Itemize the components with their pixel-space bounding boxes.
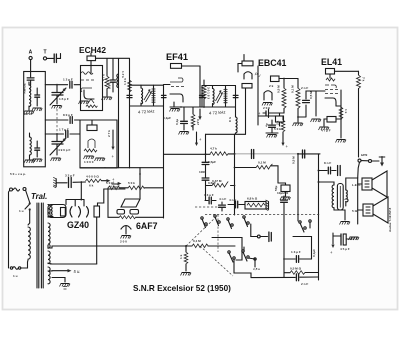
variable capacitor CV2 — [56, 134, 58, 141]
dashed diagonal 1 — [186, 215, 218, 246]
ground 47k — [102, 97, 113, 100]
svg-text:RM-BE: RM-BE — [23, 83, 27, 93]
0.5M resistor line y272.7 — [284, 272, 319, 274]
EL41 cathode — [325, 98, 336, 106]
6.8k boxed resistor — [245, 202, 266, 210]
capacitor in antenna lead — [27, 78, 34, 80]
svg-text:0,5 M: 0,5 M — [309, 91, 313, 99]
svg-text:4 n F: 4 n F — [229, 198, 236, 202]
svg-text:1 3 µ F: 1 3 µ F — [204, 193, 214, 197]
svg-text:6,8 k Ω: 6,8 k Ω — [247, 197, 258, 201]
x320 long vertical — [318, 154, 320, 280]
svg-text:EBC41: EBC41 — [258, 58, 286, 68]
HPS terminal 1 — [358, 159, 361, 162]
mains terminal 2 — [23, 188, 26, 191]
svg-text:3 2 µ F: 3 2 µ F — [65, 174, 75, 178]
wire from anode box right — [182, 65, 201, 67]
variable capacitor CV1 — [56, 85, 58, 92]
ground osc 2 — [95, 158, 106, 161]
ground padding cap — [32, 108, 43, 111]
arrow + — [118, 182, 122, 185]
svg-text:1000: 1000 — [199, 170, 206, 174]
stub cap at 303 — [303, 150, 305, 158]
wire to primary bottom — [21, 262, 28, 268]
IFT2 secondary lower vertical — [235, 86, 237, 118]
wire A down to coil box — [30, 60, 32, 77]
svg-text:1 u: 1 u — [13, 274, 18, 278]
ground osc coil — [24, 160, 35, 163]
HT vertical x129 — [129, 59, 131, 169]
svg-text:5 0 + c a p.: 5 0 + c a p. — [10, 172, 26, 176]
svg-text:2 7 k: 2 7 k — [107, 130, 111, 137]
resistor 0.1M in bus — [192, 244, 208, 248]
stack top wire — [243, 55, 245, 62]
filter choke resistor — [86, 179, 102, 182]
ground 6AF7 — [121, 236, 132, 239]
aerial coil box — [24, 72, 46, 167]
terminal wire to cap stub — [260, 236, 267, 238]
GZ40 top cap wire — [66, 200, 84, 207]
svg-text:T: T — [44, 50, 47, 56]
ground inside tube — [79, 101, 90, 104]
13uF cap wire y259 — [284, 258, 312, 260]
cathode bottom wire — [270, 112, 284, 114]
svg-text:1 7 p F: 1 7 p F — [59, 128, 69, 132]
cathode bypass boxed cap 47u — [327, 117, 336, 123]
svg-text:EF41: EF41 — [166, 52, 188, 62]
secondary winding top — [48, 205, 50, 218]
node x234.5 AVC tap — [234, 185, 236, 187]
output transformer primary coil — [332, 185, 334, 208]
GZ40 filament bumps — [51, 207, 53, 217]
ECH42 envelope — [81, 66, 103, 111]
switch cluster 2 — [228, 247, 256, 267]
grid dashes — [81, 79, 94, 81]
transformer ground — [340, 222, 351, 225]
switch output vertical — [250, 224, 252, 237]
left HT jog — [105, 167, 164, 169]
ground EL41 cathode — [336, 140, 347, 143]
svg-text:4 0 0 0 Ω: 4 0 0 0 Ω — [86, 175, 99, 179]
svg-text:6 k: 6 k — [89, 184, 94, 188]
grid wire to ECH42 — [45, 84, 80, 86]
ground EBC41 anode circuit — [297, 117, 299, 122]
svg-text:A: A — [29, 50, 33, 56]
svg-text:L.E.A.: L.E.A. — [352, 183, 361, 187]
capacitor 80pF — [70, 117, 72, 124]
IFT2 right tuning cap — [233, 95, 238, 97]
coupling cap 2nF — [298, 105, 306, 117]
pickup bottom box — [242, 84, 252, 89]
dashed gang segment upper — [195, 206, 225, 208]
svg-text:0,1 M: 0,1 M — [258, 161, 266, 165]
AVC choke coil — [235, 117, 237, 133]
svg-text:4M 10: 4M 10 — [24, 112, 33, 116]
x234.5 vertical — [234, 134, 236, 215]
decoupling cap under EF41 — [183, 107, 185, 130]
EF41 grid cap top — [170, 78, 183, 82]
1k resistor to ground — [184, 252, 188, 264]
svg-text:GZ40: GZ40 — [67, 220, 89, 230]
primary return + ground — [334, 208, 345, 220]
left mains vertical — [9, 191, 10, 269]
svg-text:0,5µF: 0,5µF — [208, 160, 216, 164]
IFT2 primary coil — [213, 89, 215, 105]
10u cap on feed — [281, 200, 288, 202]
6AF7 anode boxes — [117, 210, 125, 215]
node rail x205.5 — [205, 153, 207, 155]
pickup horseshoe — [244, 72, 252, 79]
HPS wires — [361, 160, 379, 162]
ground osc 1 — [84, 156, 95, 159]
svg-text:1 k: 1 k — [344, 109, 348, 114]
ground aerial coil — [24, 111, 35, 114]
rectifier output line y189 — [104, 188, 125, 190]
heater wire arrow — [48, 270, 68, 272]
speaker 2 cone — [373, 197, 388, 223]
svg-text:0,5 M Ω: 0,5 M Ω — [290, 267, 302, 271]
cap stub — [269, 232, 271, 242]
resistor 12k on HT vertical — [128, 80, 132, 92]
IFT1 can box — [130, 85, 164, 106]
svg-text:1 k: 1 k — [179, 254, 183, 259]
HPS link — [358, 162, 360, 178]
speaker 2 box — [363, 204, 373, 216]
lower AVC resistor — [206, 185, 213, 187]
svg-text:10µ/200: 10µ/200 — [277, 191, 289, 195]
pot resistor 50k left — [108, 186, 120, 190]
switch cluster right — [299, 220, 311, 232]
fuse terminal right — [18, 267, 20, 269]
cathode cap polarized — [265, 111, 267, 116]
HPS terminal 2 — [369, 160, 372, 163]
svg-text:C h: C h — [228, 117, 232, 122]
bypass cap 6800 — [111, 80, 116, 82]
HT vertical from rectifier — [96, 217, 98, 264]
speaker 2 stub — [358, 209, 363, 211]
ground 4u — [266, 132, 278, 134]
secondary winding low — [48, 251, 50, 264]
svg-text:1 u: 1 u — [19, 209, 24, 213]
EF41 anode resistor box — [171, 64, 182, 69]
mains squiggle — [14, 188, 20, 191]
50u decoupling boxed cap — [281, 185, 290, 192]
x298 drop to switch — [297, 154, 299, 221]
pickup top box — [242, 61, 253, 66]
anode load resistor box — [87, 56, 96, 61]
svg-text:4 n F: 4 n F — [219, 197, 226, 201]
heater ground — [52, 278, 65, 283]
feed vertical — [139, 168, 141, 198]
svg-text:2 k: 2 k — [276, 120, 280, 125]
svg-text:4 7 k: 4 7 k — [102, 74, 106, 81]
IFT1 vertical down — [163, 85, 165, 218]
osc resistor zigzag — [84, 149, 97, 152]
svg-text:0,5 M: 0,5 M — [277, 85, 281, 93]
output transformer core — [337, 184, 343, 211]
x284 feed vertical — [283, 196, 285, 278]
ground EBC41 diode — [262, 103, 273, 106]
svg-text:2 0 0: 2 0 0 — [263, 106, 270, 110]
GZ40 anode arcs — [70, 207, 81, 218]
IFT2 left tuning cap — [200, 95, 205, 97]
bus riser — [51, 246, 53, 248]
osc coil horseshoe — [88, 139, 95, 148]
EF41 screen vertical — [199, 66, 201, 107]
svg-text:8 n F: 8 n F — [324, 161, 331, 165]
svg-text:0,1µ: 0,1µ — [175, 119, 179, 125]
grid 2 curve — [81, 88, 92, 92]
EBC41 diode horseshoe — [264, 91, 272, 100]
IFT2 tuning arrows — [216, 91, 223, 103]
ground left (vertical hatch) — [53, 177, 56, 188]
svg-text:4 5 µ F: 4 5 µ F — [340, 247, 350, 251]
2k resistor vertical — [281, 120, 285, 132]
padding capacitor C2 — [35, 95, 40, 97]
svg-text:0,5 M: 0,5 M — [292, 156, 296, 164]
svg-text:2 n F: 2 n F — [301, 282, 308, 286]
EL41 grid 1 — [325, 85, 336, 88]
svg-text:Tral.: Tral. — [31, 192, 47, 201]
ground 6.8k — [266, 200, 269, 211]
svg-text:5 Ω: 5 Ω — [352, 209, 358, 213]
bottom switch wires — [234, 259, 251, 278]
heater inside — [88, 99, 94, 103]
svg-text:S.N.R Excelsior 52 (1950): S.N.R Excelsior 52 (1950) — [133, 284, 231, 293]
fuse squiggle — [13, 267, 19, 270]
fuse terminal left — [10, 267, 12, 269]
grid resistor 47k — [105, 76, 109, 89]
EF41 bottom bus — [170, 106, 212, 108]
svg-text:0,47: 0,47 — [196, 119, 200, 125]
oscillator cap — [35, 148, 40, 150]
svg-text:1 0 0 0: 1 0 0 0 — [84, 160, 94, 164]
output terminal — [257, 235, 260, 238]
right vertical from EL41 anode — [358, 71, 360, 157]
osc feedback coil — [117, 74, 119, 88]
dashed diagonal 2 — [200, 246, 233, 276]
EL41 anode box — [326, 69, 335, 75]
bottom HT loop — [50, 263, 97, 265]
HPS arrow symbol — [381, 157, 383, 164]
aerial coil L1 — [29, 85, 31, 107]
rectifier cathode riser — [98, 189, 104, 206]
oscillator can box — [80, 120, 117, 168]
arrow AVC — [196, 132, 198, 143]
gang dashed link — [56, 109, 58, 138]
svg-text:6AF7: 6AF7 — [136, 221, 158, 231]
HT rail y154 — [164, 153, 211, 155]
svg-text:5 0 k: 5 0 k — [128, 181, 135, 185]
grid input wire — [310, 91, 325, 116]
13nF cap — [205, 200, 216, 202]
svg-text:4 8 µ F: 4 8 µ F — [110, 185, 120, 189]
secondary winding mid — [48, 223, 50, 248]
speaker 1 box — [362, 178, 372, 190]
4u cap + 2k resistor — [271, 120, 273, 133]
svg-text:1.5 p F: 1.5 p F — [59, 97, 69, 101]
inner rect top — [293, 237, 312, 260]
bus y246 — [52, 245, 186, 247]
EF41 grid dashes — [171, 86, 184, 88]
speaker 1 stub — [358, 183, 362, 185]
arrow to HT — [199, 109, 201, 117]
svg-text:2 n F: 2 n F — [301, 86, 308, 90]
wire from anode box — [279, 78, 298, 80]
cathode vertical — [336, 90, 341, 138]
anode squiggle — [81, 72, 93, 75]
junction at 298,117 — [297, 116, 299, 118]
svg-text:1.7 k: 1.7 k — [121, 71, 125, 78]
ground CV2 — [51, 158, 62, 161]
45u electrolytic bottom right — [332, 233, 334, 244]
mains terminal 1 — [10, 188, 13, 191]
switch lever — [29, 202, 31, 204]
2nF line y277.6 — [251, 276, 319, 279]
svg-text:2 k: 2 k — [269, 84, 274, 88]
IFT1 tuning arrows — [144, 90, 152, 102]
GZ40 envelope — [48, 205, 66, 218]
svg-text:4µ: 4µ — [265, 123, 269, 127]
boxed cap under cathode — [276, 116, 284, 122]
EL41 grid 2 — [325, 90, 338, 94]
terminal T — [43, 57, 46, 60]
dashed vertical — [217, 215, 219, 253]
arrow 27k — [112, 130, 114, 148]
ground osc cap — [32, 159, 43, 162]
grid leak resistor 0.5M — [282, 88, 286, 108]
svg-text:1 3 µ F: 1 3 µ F — [291, 250, 301, 254]
trimmer capacitor on T lead — [54, 54, 56, 63]
cathode arc — [121, 226, 131, 235]
middle branch caps — [205, 134, 207, 200]
transformer core — [37, 203, 43, 288]
output transformer secondary coil — [346, 190, 348, 202]
AVC resistor — [191, 114, 195, 128]
ground EF41 cathode — [170, 109, 181, 112]
ground 1k — [181, 273, 192, 276]
switch contacts cluster 1 — [201, 215, 249, 229]
svg-text:2 0 0: 2 0 0 — [120, 240, 127, 244]
oscillator coil L2 — [30, 137, 32, 155]
svg-text:7 k: 7 k — [362, 77, 366, 82]
detector vertical down — [245, 88, 247, 134]
feedback resistor on right vertical — [357, 75, 361, 89]
GZ40 right box — [94, 206, 100, 217]
bottom wire to x163 — [108, 188, 164, 217]
decoupling electrolytic + resistor right of EBC41 — [340, 111, 342, 113]
node x234.5 rail crossing — [234, 153, 236, 155]
dropper resistor in HT rail — [210, 152, 228, 156]
wire from box to HT vertical — [96, 57, 130, 59]
svg-text:4 9 0 p F: 4 9 0 p F — [58, 148, 70, 152]
coupling wire y120 — [45, 119, 80, 121]
IFT1 right tuning cap — [162, 95, 167, 97]
ground 50u — [280, 197, 291, 200]
IFT2 secondary coil — [225, 89, 227, 104]
1k cathode resistor zigzag — [339, 107, 343, 119]
electrolytic bars — [338, 166, 341, 176]
EF41 grid wire from IFT1 — [164, 84, 171, 86]
svg-text:ECH42: ECH42 — [79, 45, 106, 55]
IFT1 primary coil — [141, 88, 143, 104]
osc box bottom continuation — [80, 167, 105, 169]
node rail x298 — [297, 153, 299, 155]
svg-text:Audax T-19 BP 8: Audax T-19 BP 8 — [388, 208, 392, 232]
osc feedback line — [118, 59, 120, 168]
wire T to trimmer — [47, 57, 54, 59]
transformer feed wire — [318, 181, 320, 183]
primary coil — [28, 227, 30, 259]
6AF7 screen parallelogram — [121, 199, 140, 207]
svg-text:0,1µF: 0,1µF — [163, 116, 171, 120]
svg-text:6 8 0 0: 6 8 0 0 — [108, 79, 112, 89]
EF41 cathode curve — [170, 94, 183, 107]
interior zigzag — [86, 105, 97, 108]
HT line y182 — [56, 181, 85, 184]
junction to rectifier — [80, 181, 82, 183]
wire anode to right — [335, 70, 359, 72]
svg-text:0,1µF: 0,1µF — [312, 249, 316, 257]
speaker 1 cone — [372, 171, 387, 197]
EBC41 anode load box — [271, 76, 280, 82]
svg-text:3 0 1 8 3: 3 0 1 8 3 — [207, 87, 211, 99]
GZ40 second arc — [87, 207, 89, 218]
wire left of stack — [238, 64, 242, 73]
ground CV1 — [52, 106, 63, 109]
coupling capacitor 12pF — [70, 81, 72, 88]
wire HT rail faint middle span — [235, 153, 299, 155]
ground decoupling — [179, 132, 190, 135]
svg-text:EL41: EL41 — [321, 57, 342, 67]
svg-text:0,1 M: 0,1 M — [291, 85, 295, 93]
IFT1 secondary coil — [153, 88, 155, 103]
EL41 anode squiggle — [326, 78, 335, 81]
svg-text:1 2 k: 1 2 k — [123, 78, 127, 85]
wire HT rail right of resistor — [229, 153, 235, 155]
8nF tone cap — [318, 170, 320, 172]
IFT2 can box — [202, 86, 236, 108]
svg-text:5 u.: 5 u. — [74, 269, 81, 274]
4nF cap — [221, 202, 223, 211]
32u cap — [69, 178, 72, 188]
secondary to speaker bus — [346, 178, 358, 224]
stub cap at 252 — [252, 150, 254, 159]
svg-text:0,47 M: 0,47 M — [212, 179, 222, 183]
4nF cap on wire — [228, 204, 245, 206]
svg-text:4,7 k: 4,7 k — [210, 147, 217, 151]
GZ40 inner box — [61, 208, 66, 217]
plus arrow — [107, 179, 111, 182]
gang dashed line — [205, 214, 320, 216]
coupling wire y134 — [45, 133, 80, 135]
heater winding — [48, 267, 50, 284]
svg-text:4 7 µ F: 4 7 µ F — [321, 129, 331, 133]
svg-text:1 2 p F: 1 2 p F — [63, 78, 73, 82]
svg-text:8 0 p F: 8 0 p F — [63, 113, 73, 117]
screen resistor — [202, 85, 206, 99]
capacitor 17pF — [66, 131, 68, 138]
anode resistor 0.1M — [296, 88, 300, 108]
top wire of decoupling — [258, 66, 283, 125]
IFT1 left tuning cap — [127, 95, 132, 97]
vertical from junction down to rectifier anode line — [80, 182, 82, 200]
svg-text:HPS: HPS — [361, 153, 368, 157]
wire HT rail to x320 — [298, 153, 320, 155]
AVC resistor line — [235, 167, 257, 169]
cluster1 under-wire — [212, 238, 242, 261]
osc padder resistor box — [87, 125, 97, 131]
